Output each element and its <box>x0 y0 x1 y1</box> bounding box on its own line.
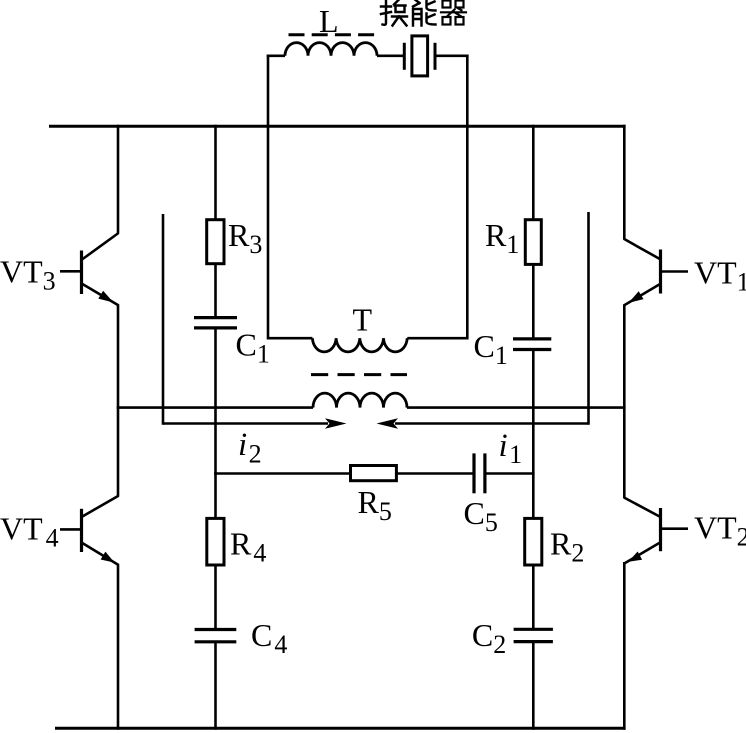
wire left column middle <box>117 304 120 496</box>
svg-text:T: T <box>353 302 373 338</box>
svg-text:C1: C1 <box>236 327 270 369</box>
wire C2 to bottom rail <box>532 641 535 730</box>
transistor VT3 <box>60 233 119 305</box>
wire bottom rail <box>55 727 626 730</box>
svg-text:R5: R5 <box>358 484 392 526</box>
resistor R1 <box>525 220 541 265</box>
svg-text:C2: C2 <box>472 617 506 659</box>
wire top rail <box>49 125 626 128</box>
svg-text:VT3: VT3 <box>0 254 56 296</box>
svg-text:i2: i2 <box>238 427 262 469</box>
resistor R4 <box>207 518 224 565</box>
wire right column upper <box>623 125 626 240</box>
transformer core dashed <box>311 373 407 376</box>
svg-text:C4: C4 <box>251 617 287 659</box>
wire left column lower <box>117 564 120 730</box>
wire feedback stub left <box>162 214 165 425</box>
inductor L <box>285 43 377 56</box>
svg-text:C1: C1 <box>474 328 508 370</box>
svg-text:i1: i1 <box>499 428 523 469</box>
resistor R2 <box>525 518 542 565</box>
wire R1 to C1 <box>532 263 535 340</box>
wire feedback stub right <box>587 212 590 425</box>
wire secondary left <box>117 406 313 409</box>
svg-text:C5: C5 <box>464 495 498 537</box>
transducer <box>404 36 435 76</box>
svg-text:VT1: VT1 <box>694 255 746 297</box>
wire loop left vertical <box>267 55 270 340</box>
resistor R5 <box>351 466 397 481</box>
capacitor C4 <box>195 630 237 642</box>
wire node to R4 <box>214 472 217 519</box>
wire R3 to C1 <box>214 263 217 318</box>
resistor R3 <box>207 220 224 264</box>
feedback line right with arrow <box>377 418 589 429</box>
wire right column lower <box>623 562 626 730</box>
wire R5 to C5 <box>396 472 474 475</box>
wire left column upper <box>117 125 120 234</box>
transformer primary winding <box>312 338 407 352</box>
svg-text:VT2: VT2 <box>694 510 746 552</box>
wire loop bottom left <box>268 337 312 340</box>
svg-text:VT4: VT4 <box>0 511 59 553</box>
capacitor C2 <box>514 629 553 641</box>
wire loop bottom right <box>407 337 467 340</box>
feedback line left with arrow <box>163 418 347 429</box>
svg-text:R1: R1 <box>485 217 519 259</box>
transformer secondary winding <box>313 393 407 408</box>
svg-text:R4: R4 <box>230 526 266 568</box>
transistor VT2 <box>624 497 688 563</box>
dashed line above L <box>289 33 377 36</box>
wire C1 left down <box>214 329 217 475</box>
capacitor C1 left <box>194 318 237 328</box>
wire C1 right down <box>532 351 535 520</box>
transistor VT4 <box>60 496 119 565</box>
wire R1 top <box>532 125 535 221</box>
wire secondary right <box>407 406 626 409</box>
wire loop right vertical <box>466 55 469 340</box>
wire R3 top <box>214 125 217 221</box>
capacitor C1 right <box>513 339 551 350</box>
wire C4 to bottom rail <box>214 641 217 730</box>
wire R4 to C4 <box>214 564 217 630</box>
wire transducer to loop right <box>435 54 469 57</box>
wire R2 to C2 <box>532 564 535 630</box>
label 换能器 <box>381 0 466 26</box>
wire i2 node to R5 <box>214 472 350 475</box>
wire right column middle <box>623 305 626 499</box>
wire loop top left <box>267 54 285 57</box>
wire L to transducer <box>377 54 404 57</box>
wire C5 to node <box>485 472 535 475</box>
transistor VT1 <box>624 239 688 306</box>
svg-text:R3: R3 <box>228 217 262 259</box>
svg-text:R2: R2 <box>550 526 584 568</box>
capacitor C5 <box>474 453 485 493</box>
